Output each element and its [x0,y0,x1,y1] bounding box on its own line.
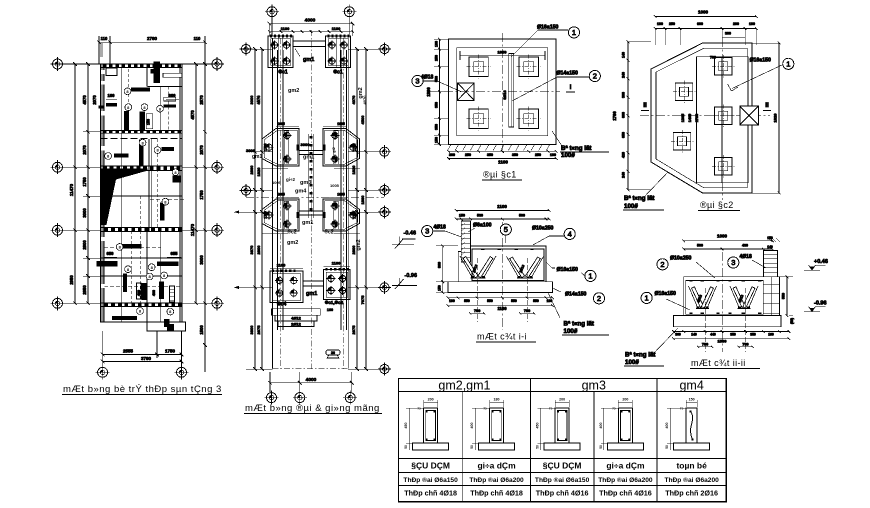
stair black wedge [101,169,147,225]
svg-text:75: 75 [417,407,421,411]
svg-text:430: 430 [742,243,748,247]
svg-text:700: 700 [474,309,480,313]
svg-text:4570: 4570 [190,110,195,120]
svg-text:36: 36 [331,351,335,355]
svg-text:Ø14a150: Ø14a150 [557,71,578,77]
svg-text:i: i [570,84,572,91]
svg-text:350: 350 [435,102,439,108]
svg-text:2555: 2555 [123,349,134,354]
footing outline [458,246,546,282]
svg-text:300: 300 [675,332,681,336]
top wall band [101,64,183,67]
svg-text:75: 75 [612,407,616,411]
svg-text:mÆt b»ng bè trÝ thÐp sµn tÇng: mÆt b»ng bè trÝ thÐp sµn tÇng 3 [63,384,222,395]
funnels [460,256,496,278]
svg-text:1400: 1400 [688,114,692,122]
svg-text:2070: 2070 [92,95,97,105]
svg-text:1: 1 [786,59,790,68]
svg-text:200: 200 [428,398,434,402]
svg-text:gm1: gm1 [303,57,314,63]
svg-text:250: 250 [435,55,439,61]
svg-text:100: 100 [749,22,755,26]
svg-text:1000: 1000 [717,234,728,239]
svg-text:ThÐp chñ 4Ø16: ThÐp chñ 4Ø16 [536,489,589,498]
svg-text:ThÐp ®ai Ø6a200: ThÐp ®ai Ø6a200 [469,476,524,484]
svg-text:300: 300 [622,92,626,98]
svg-text:1100: 1100 [332,26,341,31]
svg-text:®µi §c1: ®µi §c1 [483,170,517,180]
svg-text:1100: 1100 [277,263,286,268]
svg-text:140: 140 [691,332,697,336]
beam schedule table [399,379,727,502]
bottom dims [448,297,553,299]
svg-text:2070: 2070 [82,145,87,155]
svg-text:1100: 1100 [498,160,508,165]
DC2 column X square [740,106,759,125]
svg-text:1000: 1000 [698,10,709,15]
svg-text:1365: 1365 [681,114,685,122]
svg-text:2800: 2800 [351,245,356,255]
svg-text:500: 500 [519,214,525,218]
svg-text:-0.96: -0.96 [405,273,418,279]
band y229 [101,227,183,231]
svg-text:+0.46: +0.46 [814,259,828,265]
section mark i right [566,91,575,93]
bottom slab [674,316,782,327]
top dim line 4000 [269,23,352,25]
band y304.7 [101,303,183,307]
svg-text:4: 4 [568,230,572,239]
svg-text:®c1,®c2: ®c1,®c2 [325,299,344,305]
right ladder inside footing [763,283,779,285]
svg-text:1100: 1100 [497,204,507,209]
svg-text:-0.96: -0.96 [814,301,827,307]
svg-text:1500: 1500 [199,325,204,335]
beam section cell 5 [674,443,710,450]
svg-text:2: 2 [593,72,597,81]
svg-text:1500: 1500 [718,339,728,344]
svg-text:ii: ii [765,102,769,109]
svg-text:100#: 100# [625,359,639,366]
svg-text:50: 50 [665,445,669,449]
rebar bars (black) [153,62,160,83]
svg-text:4570: 4570 [82,95,87,105]
svg-text:2800: 2800 [256,245,261,255]
svg-text:1820: 1820 [256,167,261,177]
svg-text:2: 2 [660,260,664,269]
svg-text:gi2: gi2 [332,147,336,153]
svg-text:gm3: gm3 [300,180,311,186]
svg-text:100: 100 [449,299,455,303]
svg-text:3000: 3000 [199,255,204,265]
svg-text:400: 400 [152,290,156,296]
svg-text:gi÷a dÇm: gi÷a dÇm [606,461,645,471]
svg-text:3790: 3790 [141,356,152,361]
beam section cell 3 [544,443,580,450]
DC1 bottom hatch and dims [448,144,452,150]
svg-text:mÆt c¾t i-i: mÆt c¾t i-i [477,332,527,342]
gm1 lower beam [303,281,324,286]
DC1 top rebar dim 1050 [460,55,545,57]
svg-text:450: 450 [536,423,540,429]
svg-text:1700: 1700 [264,211,268,219]
funnels [689,286,717,309]
svg-text:gm1: gm1 [252,154,263,160]
svg-text:110: 110 [101,36,108,41]
svg-text:110: 110 [194,36,201,41]
svg-text:®µi §c2: ®µi §c2 [700,200,734,210]
svg-text:3: 3 [731,258,735,267]
DC2 piles [715,57,733,74]
svg-text:1: 1 [572,28,576,37]
right grid bubbles [380,44,389,53]
B tong lot leader DC1 [552,131,562,146]
level flags left of section i-i [392,231,417,290]
svg-text:Ø14a150: Ø14a150 [565,291,586,297]
svg-text:1820: 1820 [351,165,356,175]
svg-text:400: 400 [137,290,141,296]
svg-text:4000: 4000 [306,377,317,383]
B tong lot leader i-i [548,293,560,319]
svg-text:9Ø16: 9Ø16 [503,90,507,99]
svg-text:2800: 2800 [82,240,87,250]
svg-text:Bª t«ng lãt: Bª t«ng lãt [624,195,654,202]
svg-text:250: 250 [669,22,675,26]
svg-text:4500: 4500 [360,115,365,125]
svg-text:350: 350 [512,153,518,157]
right grid bubbles [212,59,222,69]
svg-text:Bª t«ng lãt: Bª t«ng lãt [561,145,591,152]
top dimension line [99,41,205,43]
svg-text:3800: 3800 [249,325,254,335]
svg-text:700: 700 [702,342,708,346]
svg-text:1860: 1860 [360,195,365,205]
svg-text:300: 300 [449,153,455,157]
svg-text:100: 100 [327,308,333,312]
svg-text:1005: 1005 [330,183,340,188]
svg-text:1700: 1700 [353,211,357,219]
svg-text:600: 600 [697,22,703,26]
svg-text:655: 655 [171,251,179,256]
svg-text:1005: 1005 [337,122,345,126]
svg-text:®c2: ®c2 [324,229,333,236]
svg-text:ThÐp ®ai Ø6a200: ThÐp ®ai Ø6a200 [598,476,653,484]
top dim line 1100s [269,31,352,33]
svg-text:400: 400 [665,423,669,429]
svg-text:-0.46: -0.46 [404,231,417,237]
svg-text:2850: 2850 [82,285,87,295]
interior column/beam verticals [122,64,180,322]
svg-text:Ø10a250: Ø10a250 [532,226,553,232]
svg-text:200: 200 [622,398,628,402]
DC2 outer polygon [651,43,752,193]
svg-text:350: 350 [435,124,439,130]
DC2 vertical rebar line [721,57,723,183]
band y168 [101,166,183,171]
svg-text:420: 420 [622,152,626,158]
svg-text:100#: 100# [624,203,638,210]
svg-text:5: 5 [504,225,508,234]
left floor framing plan [96,62,186,332]
svg-text:Ø10a250: Ø10a250 [670,256,691,262]
svg-text:2675: 2675 [351,325,356,335]
svg-text:550: 550 [782,293,786,299]
interior floor lines [101,196,183,276]
DC2 right dim [778,43,780,193]
svg-text:1820: 1820 [773,113,778,123]
svg-text:150: 150 [689,398,695,402]
level flags [809,265,826,270]
left wall shading [101,65,104,322]
svg-text:50: 50 [404,445,408,449]
svg-text:530: 530 [477,214,483,218]
svg-text:700: 700 [524,309,530,313]
svg-text:1: 1 [645,294,649,303]
svg-text:11470: 11470 [69,183,74,196]
svg-text:3: 3 [415,77,419,86]
svg-text:400: 400 [599,423,603,429]
outlined bars [163,73,182,77]
svg-text:1700: 1700 [695,114,699,122]
svg-text:75: 75 [483,407,487,411]
svg-text:mÆt b»ng ®µi & gi»ng mãng: mÆt b»ng ®µi & gi»ng mãng [245,403,380,414]
svg-text:gi÷2: gi÷2 [286,177,295,182]
svg-text:180: 180 [494,398,500,402]
svg-text:§ÇU DÇM: §ÇU DÇM [411,461,450,471]
svg-text:2950: 2950 [69,275,74,285]
right column stub [763,251,777,277]
svg-text:gi÷a dÇm: gi÷a dÇm [477,461,516,471]
svg-text:4000: 4000 [305,18,316,24]
right dimension columns [195,64,197,303]
row B connecting beam [299,211,323,215]
svg-text:400: 400 [470,423,474,429]
inner rebar rect [686,281,764,315]
footing body [684,277,780,316]
svg-text:3000: 3000 [249,95,254,105]
svg-text:75: 75 [549,407,553,411]
svg-text:150: 150 [459,214,465,218]
svg-text:550: 550 [487,299,493,303]
svg-text:100: 100 [657,22,663,26]
svg-text:3000: 3000 [301,142,311,147]
svg-text:1700: 1700 [353,143,357,151]
plan side walls / gm2 beams [273,38,349,369]
svg-text:gm1: gm1 [303,155,314,161]
svg-text:100: 100 [435,41,439,47]
svg-text:mÆt c¾t ii-ii: mÆt c¾t ii-ii [691,358,746,368]
svg-text:240: 240 [622,172,626,178]
left dimension columns [74,64,76,303]
svg-text:550: 550 [511,299,517,303]
DC1 piles [469,57,488,76]
svg-text:600: 600 [169,93,177,98]
left vertical dims [442,246,444,293]
svg-text:1005: 1005 [272,180,282,185]
leader to tag 1 [728,84,739,91]
top grid bubbles [267,7,277,17]
svg-text:2Ø12: 2Ø12 [291,322,302,327]
svg-text:2675: 2675 [256,325,261,335]
pile cap DC2 row B left [262,199,299,231]
DC1 inner square [457,48,548,136]
svg-text:100: 100 [108,93,116,98]
bottom dims [674,331,790,333]
B tong lot leader DC2 [645,172,668,196]
svg-text:1005: 1005 [337,193,345,197]
svg-text:1050: 1050 [498,50,508,55]
svg-text:(50): (50) [790,318,794,324]
svg-text:Ø16a150: Ø16a150 [750,58,771,64]
svg-text:550: 550 [533,299,539,303]
section i-i [422,204,609,335]
svg-text:Ø16a150: Ø16a150 [537,25,558,31]
svg-text:ThÐp ®ai Ø6a150: ThÐp ®ai Ø6a150 [403,476,458,484]
svg-text:150: 150 [435,137,439,143]
center dash axis [501,222,503,330]
svg-text:gm2: gm2 [287,240,298,246]
svg-text:2070: 2070 [199,145,204,155]
svg-text:1300: 1300 [426,87,431,97]
svg-text:Ø16a150: Ø16a150 [655,291,676,297]
left grid bubbles [53,59,63,69]
svg-text:700: 700 [710,56,716,60]
svg-text:Bª t«ng lãt: Bª t«ng lãt [564,321,594,328]
svg-text:700: 700 [742,342,748,346]
svg-text:500: 500 [697,243,703,247]
ii section marks [641,110,649,112]
svg-text:300: 300 [725,32,731,36]
svg-text:ThÐp ®ai Ø6a200: ThÐp ®ai Ø6a200 [664,476,719,484]
circled tags [124,88,131,95]
svg-text:4Ø18: 4Ø18 [740,254,752,260]
DC1 outer square [449,39,557,144]
svg-text:Ø16a150: Ø16a150 [557,267,578,273]
svg-text:1100: 1100 [497,306,507,311]
DC1 left dims [438,39,440,144]
leaders and tags [511,30,568,57]
svg-text:ThÐp chñ 2Ø16: ThÐp chñ 2Ø16 [665,489,718,498]
svg-text:1700: 1700 [612,111,617,121]
svg-text:800: 800 [438,262,442,268]
svg-text:600: 600 [622,112,626,118]
svg-text:®c1: ®c1 [333,69,342,76]
pile cap lower r [324,270,351,300]
right vertical dim [786,277,788,316]
svg-text:ThÐp chñ 4Ø18: ThÐp chñ 4Ø18 [404,489,457,498]
center axis [721,252,723,352]
svg-text:2780: 2780 [147,36,158,41]
svg-text:100: 100 [768,332,774,336]
svg-text:350: 350 [750,332,756,336]
svg-text:140: 140 [622,52,626,58]
svg-text:Ø6a100: Ø6a100 [473,222,492,228]
middle foundation plan (dai & giang mong) [265,5,356,369]
section ii-ii [624,234,828,367]
column stub with ladder [461,221,470,262]
svg-text:650: 650 [107,251,115,256]
bottom slab [448,282,553,293]
svg-text:100#: 100# [564,328,578,335]
svg-text:200: 200 [733,22,739,26]
DC1 column X square [458,83,475,100]
pile cap lower l [270,271,303,303]
svg-text:ThÐp ®ai Ø6a150: ThÐp ®ai Ø6a150 [535,476,590,484]
svg-text:1005: 1005 [277,122,285,126]
inner rebar rect [472,249,544,281]
detail dai DC2 (plan) [612,10,794,211]
pile centerlines [705,288,745,352]
svg-text:gm2: gm2 [288,88,299,94]
pile cap DC2 row A right [323,129,360,167]
gm1 beam top [293,41,326,47]
svg-text:3: 3 [425,227,429,236]
left diamond bubbles [241,186,250,195]
DC2 left dims [627,42,629,190]
left dim column [254,49,256,369]
svg-text:100: 100 [550,153,556,157]
svg-text:1750: 1750 [199,190,204,200]
svg-text:Bª t«ng lãt: Bª t«ng lãt [625,352,655,359]
plan outer frame [101,64,183,322]
svg-text:650: 650 [622,132,626,138]
svg-text:450: 450 [404,423,408,429]
center horizontal axis [246,196,384,198]
svg-text:440: 440 [710,332,716,336]
pile cap DC2 row A left [262,129,299,167]
svg-text:gm4: gm4 [295,189,307,195]
svg-text:2: 2 [597,294,601,303]
svg-text:1750: 1750 [82,177,87,187]
svg-text:4070: 4070 [256,95,261,105]
wall opening gaps [101,70,105,74]
pile cap DC1 top l [268,36,293,68]
svg-text:4Ø12: 4Ø12 [291,316,302,321]
svg-text:100#: 100# [561,152,575,159]
svg-text:®c1: ®c1 [278,69,287,76]
svg-text:100: 100 [547,299,553,303]
svg-text:550: 550 [464,299,470,303]
DC1 center axes [428,33,560,150]
DC2 center axes [640,38,770,200]
svg-text:1750: 1750 [165,349,176,354]
svg-text:150: 150 [147,119,151,125]
bottom dim [269,372,271,392]
svg-text:gm1: gm1 [306,291,317,297]
right dim column [356,49,358,369]
pile cap DC2 row B right [323,199,360,231]
DC2 inner rect [696,57,748,183]
cart symbol [326,350,340,355]
row A connecting beam [299,151,323,155]
svg-text:§ÇU DÇM: §ÇU DÇM [543,461,582,471]
center beam gm3 [309,134,314,218]
svg-text:50: 50 [470,445,474,449]
svg-text:2570: 2570 [199,95,204,105]
svg-text:75: 75 [680,407,684,411]
detail dai DC1 (plan) [412,25,609,165]
svg-text:350: 350 [730,332,736,336]
band y131.8 [101,131,183,134]
svg-text:150: 150 [438,285,442,291]
svg-text:3870: 3870 [249,245,254,255]
bottom grid bubbles [98,367,108,377]
svg-text:®c4: ®c4 [277,301,286,308]
svg-text:50: 50 [599,445,603,449]
svg-text:®c2: ®c2 [287,229,296,236]
svg-text:4Ø18: 4Ø18 [434,225,446,231]
pile cap DC1 top r [326,36,351,68]
